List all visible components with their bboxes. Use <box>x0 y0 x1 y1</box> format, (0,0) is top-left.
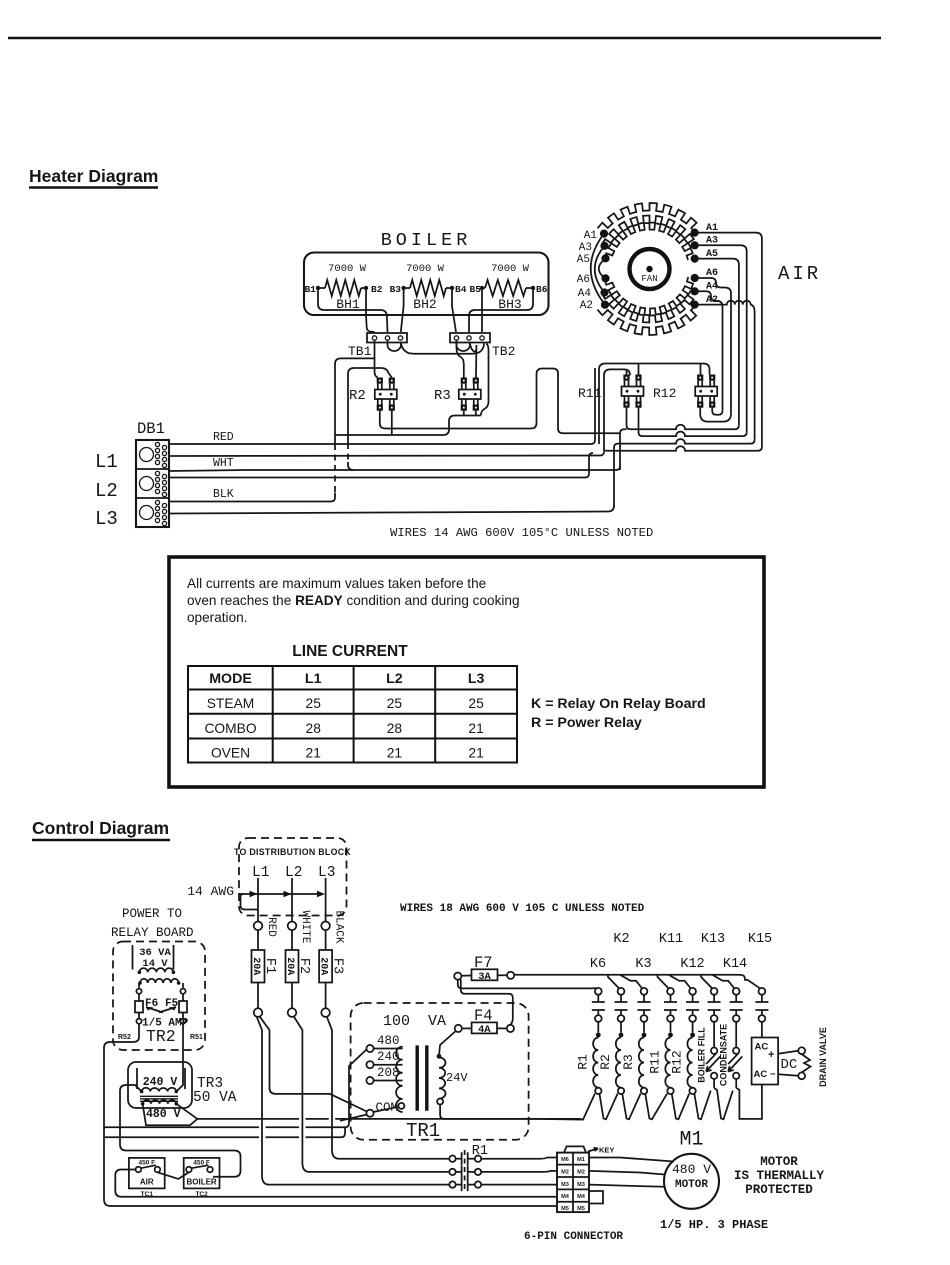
air heater element A5 (inner top arc) <box>605 223 693 260</box>
svg-text:M2: M2 <box>561 1169 569 1175</box>
svg-text:+: + <box>768 1049 774 1061</box>
line current table <box>188 666 517 763</box>
svg-text:A3: A3 <box>579 242 592 254</box>
wire TB1.c1 to R2 top-left <box>375 340 378 378</box>
relay R12 <box>697 375 703 381</box>
svg-text:BLK: BLK <box>213 488 234 501</box>
wire F1 to row3 <box>257 1016 450 1184</box>
svg-text:Control Diagram: Control Diagram <box>32 818 169 838</box>
svg-text:20A: 20A <box>317 957 328 975</box>
svg-text:L1: L1 <box>95 451 118 473</box>
svg-text:M5: M5 <box>561 1206 569 1212</box>
svg-text:25: 25 <box>468 696 484 711</box>
svg-text:M4: M4 <box>561 1194 570 1200</box>
svg-text:TR1: TR1 <box>406 1120 440 1142</box>
terminal block TB1 <box>367 333 407 343</box>
TR3 core <box>140 1096 178 1101</box>
svg-text:28: 28 <box>387 721 403 736</box>
wire F3 to row1 <box>327 1017 450 1159</box>
resistor BH3 7000W <box>485 280 526 296</box>
svg-text:4A: 4A <box>478 1024 491 1036</box>
svg-text:BLACK: BLACK <box>333 910 345 943</box>
relay contacts R1 <box>449 1156 455 1162</box>
svg-text:480: 480 <box>377 1034 400 1048</box>
svg-text:AIR: AIR <box>778 263 821 285</box>
fuse F3 BLACK wire <box>325 878 327 1009</box>
svg-text:7000 W: 7000 W <box>491 263 530 275</box>
svg-text:R52: R52 <box>118 1034 131 1041</box>
svg-text:K = Relay On Relay Board: K = Relay On Relay Board <box>531 696 706 712</box>
wire R2 bottom-left run <box>380 369 620 434</box>
wire B2-TB1 <box>366 288 375 332</box>
svg-text:B6: B6 <box>536 284 548 295</box>
svg-text:BOILER: BOILER <box>186 1178 216 1187</box>
svg-text:K15: K15 <box>748 932 772 947</box>
transformer TR1 dashed box <box>351 1003 529 1140</box>
svg-text:F3: F3 <box>330 958 345 974</box>
TR1 secondary 24V coil <box>439 1058 446 1099</box>
svg-text:L2: L2 <box>285 865 302 881</box>
svg-text:28: 28 <box>306 721 322 736</box>
svg-text:COMBO: COMBO <box>204 721 256 736</box>
TR1 primary coil <box>396 1047 403 1112</box>
svg-text:L3: L3 <box>95 508 118 530</box>
svg-text:L2: L2 <box>386 671 403 687</box>
svg-text:R11: R11 <box>648 1050 663 1074</box>
wire h2 R12 left pin elbow <box>700 408 731 422</box>
fuse F6 <box>138 983 140 1001</box>
svg-text:OVEN: OVEN <box>211 746 250 761</box>
svg-text:25: 25 <box>387 696 403 711</box>
wire h5 run <box>614 439 755 507</box>
wire B1-TB1 <box>318 288 388 332</box>
svg-text:WIRES 14 AWG 600V 105°C UNLESS: WIRES 14 AWG 600V 105°C UNLESS NOTED <box>390 526 653 540</box>
motor M1 <box>664 1154 719 1209</box>
svg-text:B4: B4 <box>455 284 467 295</box>
svg-text:25: 25 <box>306 696 322 711</box>
TR3 secondary 480V <box>143 1100 177 1104</box>
svg-text:F1: F1 <box>262 958 277 974</box>
TR1 primary taps <box>366 1045 373 1052</box>
wire 1137 run <box>104 1127 345 1137</box>
fuse F1 RED wire <box>257 878 259 1009</box>
air heater element A1 (outer top arc) <box>598 203 697 233</box>
coil return bus zigzag <box>444 1085 762 1120</box>
svg-text:operation.: operation. <box>187 610 247 625</box>
air heater element A6 (inner bottom arc) <box>605 277 693 315</box>
wire fan A6 out <box>695 278 731 414</box>
svg-text:24V: 24V <box>446 1071 468 1085</box>
wire TB2 hook to R3 top-right <box>457 340 477 378</box>
svg-text:14 AWG: 14 AWG <box>187 884 234 899</box>
contact symbols <box>595 988 602 995</box>
resistor BH1 7000W <box>325 280 361 296</box>
bus from F7 right <box>514 975 760 989</box>
wire TB1 hook to long run <box>388 340 485 354</box>
wire h1 R12 right pin elbow <box>712 408 722 415</box>
wire F4 to F7 <box>461 980 513 1025</box>
svg-text:MOTOR: MOTOR <box>675 1179 708 1191</box>
svg-text:K6: K6 <box>590 957 606 972</box>
svg-text:BOILER: BOILER <box>381 230 472 251</box>
svg-text:7000 W: 7000 W <box>406 263 445 275</box>
svg-text:IS THERMALLY: IS THERMALLY <box>734 1169 825 1183</box>
relay R3 <box>461 378 467 384</box>
svg-text:M2: M2 <box>577 1169 585 1175</box>
svg-text:A4: A4 <box>578 288 592 300</box>
svg-text:M3: M3 <box>561 1182 569 1188</box>
svg-text:M4: M4 <box>577 1194 586 1200</box>
wire F1 to TR1 COM <box>260 1016 368 1121</box>
svg-text:TO DISTRIBUTION BLOCK: TO DISTRIBUTION BLOCK <box>234 847 351 857</box>
fuse F2 WHITE wire <box>291 878 293 1009</box>
relay R2 <box>377 378 383 384</box>
svg-text:A1: A1 <box>584 230 598 242</box>
wire R2 bottom-right to bus435 <box>335 410 457 435</box>
svg-text:100 VA: 100 VA <box>383 1013 446 1030</box>
wires connector to motor <box>589 1158 674 1187</box>
relay coils R1 R2 R3 R11 R12 <box>597 1022 599 1033</box>
svg-text:KEY: KEY <box>599 1146 614 1155</box>
wire F2 to row2 <box>294 1017 449 1172</box>
to-distribution-block dashed box <box>239 838 347 916</box>
svg-text:1/5 HP. 3 PHASE: 1/5 HP. 3 PHASE <box>660 1218 768 1232</box>
wire fan A5 out <box>695 259 739 426</box>
svg-text:R12: R12 <box>670 1050 685 1073</box>
svg-text:BOILER FILL: BOILER FILL <box>697 1027 707 1083</box>
fan hub <box>630 249 670 289</box>
wire WHT <box>169 466 620 471</box>
svg-text:DB1: DB1 <box>137 420 165 438</box>
svg-text:L3: L3 <box>318 865 335 881</box>
svg-text:7000 W: 7000 W <box>328 263 367 275</box>
wire fan A1 out <box>695 233 762 447</box>
svg-text:A6: A6 <box>577 274 590 286</box>
wire L1 lower <box>169 452 604 457</box>
wire h6 run <box>604 446 762 451</box>
fuse F5 <box>182 983 184 1001</box>
wire WHT branch riser to R2 top-right <box>348 368 392 470</box>
svg-text:M3: M3 <box>577 1182 585 1188</box>
svg-text:21: 21 <box>468 721 483 736</box>
svg-text:B5: B5 <box>470 284 482 295</box>
svg-text:All currents are maximum value: All currents are maximum values taken be… <box>187 576 486 591</box>
TR1 COM tap <box>366 1110 373 1117</box>
svg-text:21: 21 <box>387 746 402 761</box>
svg-text:20A: 20A <box>284 957 295 975</box>
wire fan A3 out <box>695 245 747 432</box>
terminal block TB2 <box>450 333 490 343</box>
svg-text:R11: R11 <box>578 386 602 401</box>
note box <box>169 557 764 787</box>
svg-text:K2: K2 <box>613 932 629 947</box>
svg-text:WIRES 18 AWG 600 V 105 C UNLES: WIRES 18 AWG 600 V 105 C UNLESS NOTED <box>400 903 645 915</box>
svg-text:6-PIN CONNECTOR: 6-PIN CONNECTOR <box>524 1231 623 1243</box>
svg-text:DC: DC <box>781 1057 798 1073</box>
svg-text:TB2: TB2 <box>492 344 515 359</box>
wire BLK riser to TB1 branch <box>335 358 375 497</box>
svg-text:BH2: BH2 <box>413 297 436 312</box>
svg-text:R3: R3 <box>434 388 451 404</box>
wire AIR left to connector <box>115 1170 557 1197</box>
svg-text:TR2: TR2 <box>146 1027 176 1046</box>
svg-text:WHITE: WHITE <box>299 910 311 943</box>
svg-text:RED: RED <box>213 431 234 444</box>
DB1 row 3 terminals <box>140 506 154 520</box>
svg-text:oven reaches the READY conditi: oven reaches the READY condition and dur… <box>187 593 520 608</box>
svg-text:R = Power Relay: R = Power Relay <box>531 715 642 731</box>
svg-text:R2: R2 <box>349 388 366 404</box>
svg-text:L1: L1 <box>252 865 269 881</box>
svg-text:K11: K11 <box>659 932 683 947</box>
air heater terminal dots <box>600 230 608 238</box>
wire h3 R11 left pin run <box>620 408 739 470</box>
svg-text:AC: AC <box>755 1042 769 1053</box>
rectifier AC DC box <box>761 1022 763 1038</box>
air heater element A4 (middle bottom arc) <box>602 291 694 323</box>
KEY arrow <box>588 1148 598 1152</box>
svg-text:M1: M1 <box>679 1129 703 1152</box>
svg-text:MODE: MODE <box>209 671 252 687</box>
solenoid symbols <box>713 1022 715 1048</box>
transformer TR3 box <box>128 1062 192 1108</box>
wire B3-TB1 <box>401 288 404 332</box>
svg-text:L1: L1 <box>305 671 322 687</box>
svg-text:21: 21 <box>468 746 483 761</box>
svg-text:PROTECTED: PROTECTED <box>745 1183 813 1197</box>
svg-text:B2: B2 <box>371 284 383 295</box>
svg-text:MOTOR: MOTOR <box>760 1155 798 1169</box>
svg-text:FAN: FAN <box>641 274 657 284</box>
distribution block DB1 <box>136 440 169 527</box>
wire L3 lower <box>169 506 614 514</box>
wire fan A4 out <box>695 291 723 410</box>
svg-text:M5: M5 <box>577 1206 585 1212</box>
bus from F7 left <box>458 980 597 989</box>
wire B4-TB2 <box>452 288 456 332</box>
wire 1127 run to TR1 480 tap <box>104 1050 367 1128</box>
boiler enclosure <box>304 253 549 316</box>
top rule <box>8 37 881 40</box>
wire fan A2 out <box>695 301 755 440</box>
svg-text:L2: L2 <box>95 480 118 502</box>
svg-text:50 VA: 50 VA <box>193 1090 237 1106</box>
connector loop right <box>589 1191 603 1204</box>
wire BLK <box>169 498 335 502</box>
svg-text:3A: 3A <box>478 971 491 983</box>
svg-text:B3: B3 <box>390 284 402 295</box>
wire R11 R12 top bus <box>599 364 710 451</box>
svg-text:L3: L3 <box>468 671 485 687</box>
wires R1 contacts to connector <box>481 1158 557 1185</box>
6-pin connector <box>564 1146 586 1152</box>
wire TB2.c1 to R3 top-left <box>457 340 464 378</box>
contact feed diagonals <box>608 975 619 989</box>
svg-text:WHT: WHT <box>213 457 234 470</box>
svg-text:M1: M1 <box>577 1157 585 1163</box>
transformer TR2 primary coil <box>140 979 179 983</box>
svg-text:R12: R12 <box>653 386 676 401</box>
svg-text:R1: R1 <box>575 1054 590 1070</box>
svg-text:R2: R2 <box>598 1054 613 1070</box>
drain valve <box>778 1051 798 1076</box>
svg-text:K3: K3 <box>635 957 651 972</box>
thermostat BOILER <box>184 1158 220 1189</box>
svg-text:R3: R3 <box>621 1054 636 1070</box>
svg-text:20A: 20A <box>250 957 261 975</box>
svg-text:B1: B1 <box>305 284 317 295</box>
air heater element A2 (outer bottom arc) <box>598 305 697 335</box>
arrow 14 AWG feeds <box>238 893 322 895</box>
svg-text:AC −: AC − <box>754 1069 776 1080</box>
relay R11 <box>623 375 629 381</box>
wire 480V secondary run <box>197 1118 583 1121</box>
wire F6 to outer frame <box>104 1033 557 1206</box>
thermostat AIR <box>129 1158 165 1189</box>
svg-text:RELAY BOARD: RELAY BOARD <box>111 926 194 940</box>
svg-text:K12: K12 <box>680 957 704 972</box>
svg-text:LINE CURRENT: LINE CURRENT <box>292 643 408 660</box>
svg-text:M6: M6 <box>561 1157 569 1163</box>
svg-text:RED: RED <box>265 917 277 937</box>
wire h4 R11 right pin run <box>639 408 747 437</box>
wire RED <box>169 368 595 444</box>
DB1 row 1 terminals <box>140 448 154 462</box>
wire thermostat V link <box>157 1172 189 1179</box>
wire dashes over crossing <box>335 443 348 493</box>
wire TB2.c3 down to R3 bottom bus <box>481 344 489 416</box>
svg-text:Heater Diagram: Heater Diagram <box>29 166 158 186</box>
svg-text:A2: A2 <box>580 300 593 312</box>
wire L2 lower <box>169 453 593 478</box>
resistor BH2 7000W <box>410 280 446 296</box>
wire TR3 240V left to switch chain <box>120 1085 241 1177</box>
svg-text:CONDENSATE: CONDENSATE <box>719 1024 729 1086</box>
svg-text:STEAM: STEAM <box>207 696 255 711</box>
svg-text:POWER TO: POWER TO <box>122 907 182 921</box>
DB1 row 2 terminals <box>140 477 154 491</box>
svg-text:21: 21 <box>306 746 321 761</box>
relay-board dashed box <box>113 942 205 1051</box>
air heater element A3 (middle top arc) <box>602 216 694 248</box>
svg-text:480 V: 480 V <box>146 1108 181 1121</box>
TR1 core <box>417 1045 427 1110</box>
wire B6-TB2 <box>469 288 533 332</box>
svg-text:R51: R51 <box>190 1034 203 1041</box>
svg-text:480 V: 480 V <box>672 1162 711 1177</box>
svg-text:F2: F2 <box>296 958 311 974</box>
svg-text:K14: K14 <box>723 957 747 972</box>
air heater left link arcs <box>591 234 605 305</box>
svg-text:K13: K13 <box>701 932 725 947</box>
svg-text:DRAIN VALVE: DRAIN VALVE <box>818 1027 828 1087</box>
svg-text:AIR: AIR <box>140 1178 154 1187</box>
svg-text:TB1: TB1 <box>348 344 372 359</box>
wire R3 bottom pins to bus <box>457 411 481 416</box>
svg-text:A5: A5 <box>577 254 590 266</box>
wire B5-TB2 <box>481 288 483 332</box>
